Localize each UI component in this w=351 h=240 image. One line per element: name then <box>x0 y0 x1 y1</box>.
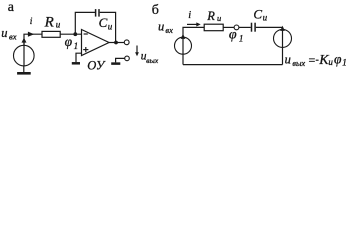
ground (source, circuit a) <box>17 72 31 75</box>
svg-text:б: б <box>152 3 159 18</box>
svg-text:и: и <box>328 57 333 67</box>
svg-text:φ: φ <box>229 28 237 43</box>
ground (lower terminal) <box>111 62 120 65</box>
terminal φ1 circle (circuit b) <box>234 25 239 30</box>
svg-text:1: 1 <box>239 34 244 44</box>
wire source to resistor (circuit a) <box>24 34 42 45</box>
feedback wire right-down (circuit a) <box>100 12 116 42</box>
output wire (circuit a) <box>109 42 124 44</box>
svg-text:и: и <box>56 20 61 30</box>
ground (op-amp plus input) <box>72 62 80 65</box>
dependent source arrow (circuit b) <box>282 31 284 48</box>
svg-text:u: u <box>158 20 164 34</box>
svg-text:φ: φ <box>334 51 342 66</box>
lower terminal circle <box>125 56 130 61</box>
feedback wire up-left (circuit a) <box>75 12 95 34</box>
output terminal circle (upper) <box>124 40 129 45</box>
svg-text:i: i <box>30 17 33 27</box>
source E (circuit a) <box>13 45 34 66</box>
current arrow i (circuit b) <box>187 23 197 25</box>
label C_и (circuit b) <box>253 7 267 23</box>
bottom wire (circuit b) <box>183 64 283 66</box>
stem source bottom (circuit b) <box>182 54 184 64</box>
label u_вх (circuit b) <box>158 20 173 35</box>
label R_и (circuit a) <box>44 15 61 31</box>
label φ1 (circuit a) <box>65 34 79 51</box>
svg-text:i: i <box>188 10 191 21</box>
svg-text:u: u <box>1 26 7 40</box>
svg-text:R: R <box>206 9 215 23</box>
current arrowhead i (circuit a) <box>28 32 34 37</box>
source arrow (circuit a) <box>23 42 25 66</box>
svg-text:вх: вх <box>165 25 173 35</box>
label φ1 (circuit b) <box>229 28 244 44</box>
svg-text:=: = <box>309 53 316 67</box>
op-amp plus input sign <box>83 49 88 51</box>
stem dependent source bottom (circuit b) <box>282 47 284 64</box>
label u_вых = -K_и φ1 (circuit b) <box>285 51 347 68</box>
svg-text:и: и <box>217 13 221 23</box>
label C_и (circuit a) <box>99 15 113 32</box>
op-amp minus input sign <box>84 33 88 35</box>
wire terminal to capacitor (circuit b) <box>239 26 251 28</box>
source u_вх circle (circuit b) <box>175 37 192 54</box>
svg-text:1: 1 <box>74 41 79 51</box>
svg-text:C: C <box>253 7 262 22</box>
op-amp U1 triangle <box>82 30 110 56</box>
svg-text:φ: φ <box>65 34 73 49</box>
wire resistor to terminal (circuit b) <box>223 26 234 28</box>
output junction dot <box>114 41 118 45</box>
svg-text:и: и <box>108 22 113 32</box>
junction node φ1 (circuit a) <box>73 32 77 36</box>
wire capacitor to source (circuit b) <box>256 26 283 28</box>
svg-text:вых: вых <box>292 59 305 68</box>
resistor R_и (circuit b) <box>204 24 223 31</box>
label u_вых (circuit a) <box>141 51 159 65</box>
wire source top to resistor (circuit b) <box>183 27 204 37</box>
svg-text:вх: вх <box>9 31 17 41</box>
u_вых arrow down (circuit a) <box>136 46 138 54</box>
label R_и (circuit b) <box>206 9 221 23</box>
wire resistor to op-amp input (circuit a) <box>60 33 81 35</box>
wire top to circle (circuit b) <box>282 27 284 29</box>
capacitor C_и plates (circuit a) <box>95 9 97 17</box>
svg-text:R: R <box>44 15 54 31</box>
svg-text:вых: вых <box>146 56 159 65</box>
lower terminal wire to ground <box>116 58 125 62</box>
dependent source circle (circuit b) <box>274 29 292 47</box>
svg-text:а: а <box>8 0 15 15</box>
svg-text:C: C <box>99 15 108 30</box>
capacitor C_и plates (circuit b) <box>251 23 253 32</box>
svg-text:ОУ: ОУ <box>87 59 106 73</box>
svg-text:u: u <box>285 52 291 66</box>
resistor R_и (circuit a) <box>42 31 60 37</box>
svg-text:и: и <box>263 13 268 23</box>
stem source bottom (circuit a) <box>23 66 25 72</box>
label u_вх (circuit a) <box>1 26 16 41</box>
svg-text:1: 1 <box>342 58 347 68</box>
plus input wire to ground <box>76 53 82 62</box>
minus sign in formula <box>316 59 319 61</box>
source arrow (circuit b) <box>182 39 184 55</box>
